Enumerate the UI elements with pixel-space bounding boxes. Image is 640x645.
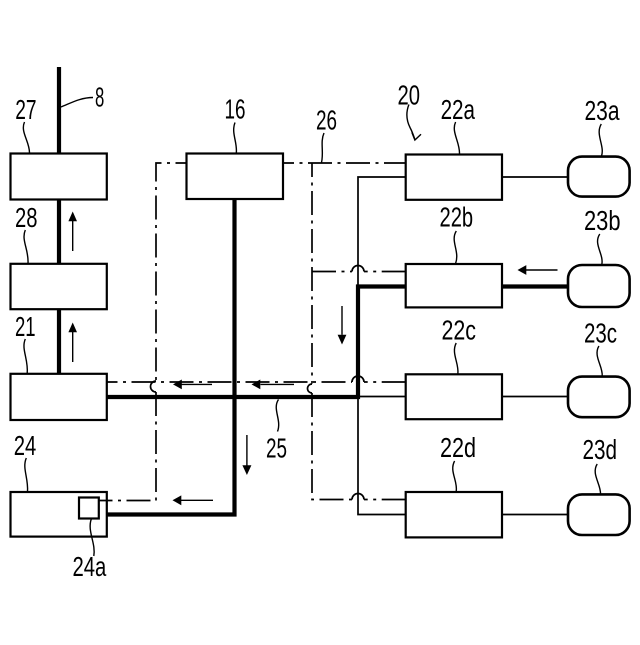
wire thick main horizontal 21 to bus, bus up to 22b	[107, 287, 407, 398]
box 22a	[406, 155, 502, 200]
leader 26	[322, 133, 325, 163]
wire thin bus bottom corner to 22d	[358, 397, 406, 515]
leader 22d	[453, 461, 457, 492]
svg-text:23c: 23c	[584, 317, 617, 349]
wire thin stub to 22c	[356, 396, 406, 398]
wire thick 22b to 23b	[502, 284, 569, 288]
svg-text:24: 24	[14, 429, 37, 461]
svg-text:16: 16	[225, 93, 246, 125]
leader 21	[24, 339, 27, 374]
svg-text:26: 26	[316, 104, 337, 136]
box 22c	[406, 374, 502, 419]
svg-text:22c: 22c	[442, 314, 477, 346]
wire 22a to 23a	[502, 176, 568, 178]
leader 25	[276, 400, 278, 432]
leader 22a	[454, 122, 459, 154]
wire dash-dot row b from x312 to 22b	[312, 271, 352, 273]
hop on x312 vertical over y382 line	[308, 384, 313, 393]
wire dash-dot 16 right to 22a	[283, 162, 406, 164]
leader 23b	[598, 234, 603, 265]
arrow down beside bus between 22b and main line	[341, 306, 343, 335]
stadium 23a	[568, 157, 630, 197]
svg-text:22b: 22b	[440, 201, 474, 233]
svg-text:28: 28	[15, 201, 38, 233]
svg-text:22d: 22d	[440, 431, 476, 463]
svg-text:23a: 23a	[585, 94, 620, 126]
arrow up between 28 and 21	[72, 331, 74, 362]
svg-text:23d: 23d	[583, 433, 618, 465]
leader 23a	[599, 124, 602, 156]
hop on row c over bus	[352, 376, 364, 382]
box 24	[11, 492, 107, 537]
wire 22c to 23c	[502, 396, 568, 398]
leader 22b	[454, 231, 457, 264]
leader 27	[23, 122, 29, 154]
wire 22d to 23d	[502, 514, 568, 516]
wire dash-dot row c from 21 to 22c	[107, 381, 353, 383]
wire thin bus top corner to 22a	[358, 177, 406, 287]
svg-text:23b: 23b	[584, 204, 621, 236]
arrow left on row c near 21	[181, 383, 212, 385]
leader 16	[234, 123, 237, 154]
stadium 23d	[568, 494, 630, 535]
wire dash-dot 16 left, down at x156, to 24a	[156, 163, 187, 381]
arrow left between 22b and 23b	[526, 269, 558, 271]
svg-text:24a: 24a	[73, 550, 107, 582]
svg-text:8: 8	[95, 81, 104, 113]
hop on row b over bus	[352, 266, 364, 272]
leader 28	[24, 230, 28, 264]
leader 24	[25, 458, 28, 492]
arrow up between 27 and 28	[72, 220, 74, 251]
box 22b	[406, 264, 502, 307]
arrow left on row c right of stem	[261, 383, 295, 385]
svg-text:22a: 22a	[441, 93, 476, 125]
leader 24a	[90, 519, 94, 556]
stadium 23c	[568, 377, 630, 418]
svg-text:21: 21	[15, 310, 36, 342]
leader 20 hook arrow	[407, 105, 415, 140]
box 28	[11, 264, 107, 309]
arrow left on 24a row	[181, 499, 213, 501]
stadium 23b	[568, 265, 630, 307]
svg-text:25: 25	[266, 432, 287, 464]
box 27	[11, 154, 107, 200]
wire dash-dot vertical x312	[311, 163, 313, 384]
leader 22c	[454, 343, 458, 374]
hop on x156 vertical over y382 line	[151, 381, 156, 392]
wire 8 thick vertical through 27,28 into 21	[57, 67, 61, 374]
leader 23d	[595, 464, 600, 494]
box 24a small square	[79, 498, 99, 519]
box 21	[11, 374, 107, 420]
arrow down beside thick stem above 24 row	[246, 435, 248, 466]
svg-text:20: 20	[398, 79, 421, 111]
box 16	[187, 154, 284, 200]
svg-text:27: 27	[15, 93, 36, 125]
leader 23c	[597, 346, 602, 376]
leader 8	[61, 98, 93, 108]
hop on 22d row over bus	[352, 494, 364, 500]
box 22d	[406, 492, 502, 537]
wire thick stem from 16 down and left to 24	[107, 155, 235, 515]
